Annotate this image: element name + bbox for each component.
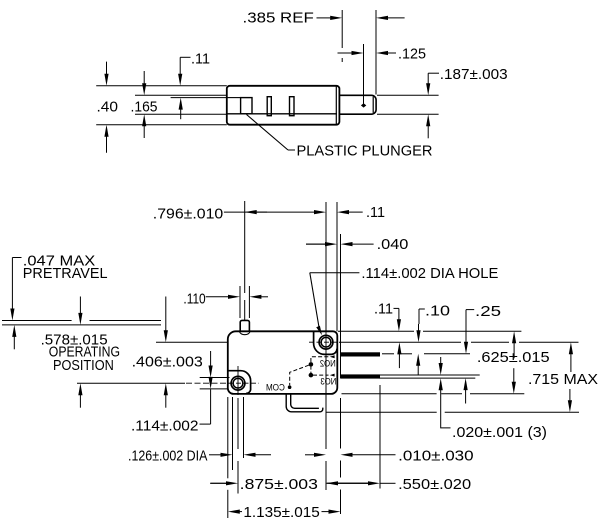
svg-text:.110: .110 [183,291,205,308]
svg-text:.114±.002: .114±.002 [131,417,199,434]
svg-text:.187±.003: .187±.003 [440,66,508,83]
svg-text:NO3: NO3 [320,377,336,387]
svg-text:.25: .25 [475,303,501,320]
svg-text:.126±.002 DIA: .126±.002 DIA [128,447,207,464]
svg-text:1.135±.015: 1.135±.015 [243,504,319,521]
svg-text:.625±.015: .625±.015 [477,349,550,366]
svg-text:.10: .10 [425,302,450,319]
svg-text:.715 MAX: .715 MAX [528,371,598,388]
svg-text:PLASTIC PLUNGER: PLASTIC PLUNGER [297,143,433,160]
svg-text:POSITION: POSITION [53,357,114,374]
svg-text:.385 REF: .385 REF [243,10,314,27]
svg-text:.11: .11 [191,50,210,67]
svg-text:.550±.020: .550±.020 [398,476,471,493]
svg-text:.020±.001 (3): .020±.001 (3) [452,424,547,441]
svg-text:COM: COM [266,382,285,392]
svg-text:NO2: NO2 [320,358,336,368]
svg-text:.114±.002 DIA HOLE: .114±.002 DIA HOLE [361,265,498,282]
svg-text:.125: .125 [398,46,426,63]
svg-text:.11: .11 [366,204,385,221]
svg-text:.11: .11 [374,301,393,318]
svg-text:PRETRAVEL: PRETRAVEL [23,265,108,282]
svg-text:.40: .40 [97,99,119,116]
svg-text:.010±.030: .010±.030 [398,447,474,464]
svg-text:.796±.010: .796±.010 [153,205,223,222]
svg-text:.875±.003: .875±.003 [240,476,318,493]
svg-text:.406±.003: .406±.003 [132,354,203,371]
svg-text:.040: .040 [377,236,409,253]
svg-text:.165: .165 [131,99,158,116]
